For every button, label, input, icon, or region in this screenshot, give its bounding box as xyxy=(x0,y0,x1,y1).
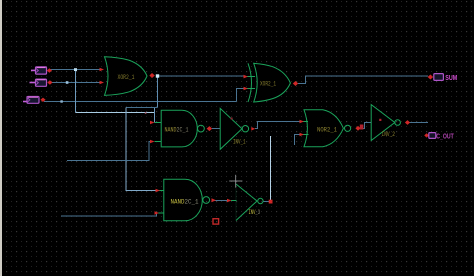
bottom NAND bubble xyxy=(203,197,210,204)
svg-text:C_OUT: C_OUT xyxy=(436,133,454,140)
INV2 bubble xyxy=(395,120,401,126)
junction dot on net B xyxy=(66,81,69,84)
bottom NAND unused pin red square xyxy=(213,219,219,224)
junction dot on net CIN xyxy=(60,100,62,102)
op gate XOR2 body xyxy=(254,63,291,102)
wire NOR input 2 step xyxy=(295,135,302,146)
svg-text:NOR2_1: NOR2_1 xyxy=(317,126,337,133)
INV2 output dot xyxy=(405,120,410,125)
wire XOR1 output branch vertical x=157.5 xyxy=(157,76,159,108)
selection crosshair INV3 origin xyxy=(229,175,242,188)
wire net CIN horizontal from pin CIN xyxy=(44,101,237,103)
INV3 output riser red dot xyxy=(269,200,273,204)
op gate XOR2 (XOR2_2) outer arc xyxy=(248,63,252,102)
bottom NAND input 1 arrow xyxy=(156,189,161,193)
XOR2 input 2 arrow xyxy=(244,87,249,91)
wire INV3 output riser x=270 xyxy=(270,136,272,202)
bottom NAND output arrow xyxy=(212,198,217,202)
wire INV2 output xyxy=(410,122,429,124)
dangling end dot y=113 xyxy=(145,112,147,114)
junction square at XOR1 output xyxy=(156,74,159,77)
INV1 bubble xyxy=(242,126,248,132)
junction dot on net A xyxy=(74,68,77,71)
wire vertical x=126 down to bottom NAND input 1 xyxy=(126,108,157,191)
wire branch A vertical at x=75.5 xyxy=(75,70,77,113)
wire branch A horizontal y=112.5 to mid NAND input 1 xyxy=(76,112,155,114)
NOR output dot xyxy=(355,126,360,131)
mid NAND input 2 arrow xyxy=(150,140,155,144)
wire net B branch horizontal y=160.5 to mid NAND input 2 xyxy=(67,142,153,161)
NOR input 1 arrow xyxy=(300,120,305,124)
XOR1 input 2 arrow xyxy=(100,81,105,85)
INV3 bubble xyxy=(258,198,263,203)
bottom NAND input stub 2 xyxy=(157,212,164,214)
wire XOR1 output to XOR2 input 1 xyxy=(158,75,245,77)
output pin C_OUT glyph xyxy=(429,133,436,139)
wire INV3 output stub xyxy=(264,201,270,203)
INV2 input red mark xyxy=(360,125,364,130)
svg-text:INV_1: INV_1 xyxy=(233,138,246,145)
wire XOR1 branch horizontal y=107.5 xyxy=(126,107,158,109)
pin A red dot xyxy=(47,68,52,73)
wire bottom NAND input 2 horizontal y=216 xyxy=(61,214,157,217)
output pin SUM glyph xyxy=(434,74,444,81)
wire drop to mid NAND input 1 xyxy=(154,108,156,123)
input pin A glyph xyxy=(31,67,47,74)
NOR bubble xyxy=(345,125,351,131)
input pin B glyph xyxy=(30,79,47,86)
wire mid NAND output to INV1 input xyxy=(212,128,220,130)
XOR1 output diamond xyxy=(149,73,154,78)
bottom NAND input stub 1 xyxy=(157,190,164,192)
bottom NAND input 2 arrow xyxy=(155,211,160,215)
svg-text:INV_3: INV_3 xyxy=(249,209,261,216)
op gate INV1 triangle xyxy=(220,108,248,149)
XOR1 input 1 arrow xyxy=(100,68,105,72)
mid NAND bubble xyxy=(198,125,205,132)
C_OUT pin red dot xyxy=(424,133,429,137)
pin CIN red dot xyxy=(40,98,45,102)
INV3 input stub xyxy=(231,200,237,202)
NOR input stub 1 xyxy=(302,121,308,123)
op gate mid NAND (NAND2C_1) body xyxy=(155,110,205,147)
INV1 output arrow xyxy=(251,127,255,131)
NOR input stub 2 xyxy=(302,134,309,136)
op gate NOR (NOR2_1) body xyxy=(302,110,351,147)
wire net CIN riser to XOR2 input 2 xyxy=(237,89,245,102)
SUM pin red dot xyxy=(428,75,434,80)
XOR2 output diamond xyxy=(293,81,298,86)
XOR2 input stub 1 xyxy=(246,76,255,78)
input pin CIN glyph xyxy=(23,97,39,104)
svg-text:INV_2: INV_2 xyxy=(382,131,396,138)
INV1 inner red dot xyxy=(231,118,233,120)
wire INV1 output to NOR input 1 xyxy=(255,122,300,129)
mid NAND input stub 2 xyxy=(155,141,162,143)
INV3 input arrow xyxy=(227,199,232,203)
XOR2 input stub 2 xyxy=(246,88,255,90)
op gate bottom NAND (NAND2C_1) body xyxy=(157,179,210,221)
NOR input 2 arrow xyxy=(300,133,305,137)
mid NAND input 1 arrow xyxy=(150,121,155,125)
op gate INV2 triangle xyxy=(371,105,400,141)
INV2 inner red dot xyxy=(379,119,381,121)
wire net A horizontal from pin A to XOR1 input 1 xyxy=(50,69,101,71)
svg-text:XOR2_1: XOR2_1 xyxy=(118,74,135,81)
window border left xyxy=(0,0,2,276)
svg-text:XOR2_1: XOR2_1 xyxy=(260,80,276,87)
op gate INV3 triangle xyxy=(231,184,263,221)
pin B red dot xyxy=(47,80,52,85)
wire NOR output to INV2 input xyxy=(359,123,372,129)
wire XOR2 output to SUM pin xyxy=(298,76,428,84)
svg-text:NAND2C_1: NAND2C_1 xyxy=(171,199,199,206)
op gate XOR1 (XOR2_1) body xyxy=(105,57,148,96)
svg-text:SUM: SUM xyxy=(445,73,457,82)
mid NAND input stub 1 xyxy=(155,122,162,124)
wire net B horizontal from pin B to XOR1 input 2 xyxy=(51,82,101,84)
svg-text:NAND2C_1: NAND2C_1 xyxy=(165,127,189,134)
XOR2 input 1 arrow xyxy=(244,75,249,79)
mid NAND output diamond xyxy=(207,126,213,131)
wire bottom NAND output to INV3 input xyxy=(213,200,228,202)
